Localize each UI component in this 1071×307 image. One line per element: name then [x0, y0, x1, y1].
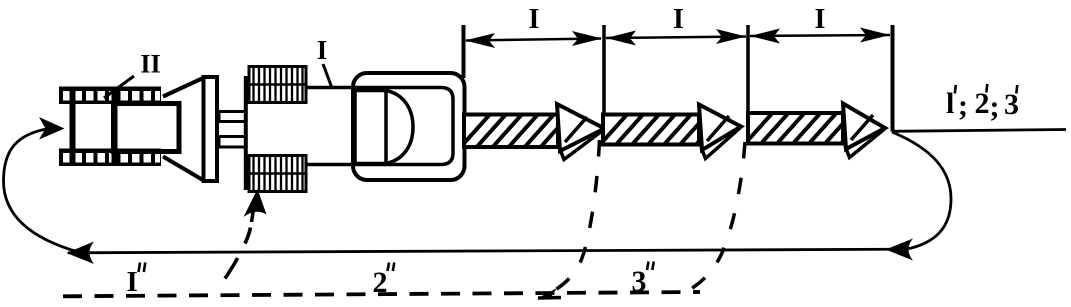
implement hitch trapezoid top edge — [163, 79, 202, 97]
dashed turn curve 1 — [550, 140, 600, 293]
tractor front edge — [244, 76, 248, 190]
left turn curve — [4, 129, 81, 253]
headland dashed line — [63, 292, 700, 296]
svg-text:;: ; — [958, 89, 968, 122]
svg-text:2: 2 — [373, 266, 388, 299]
svg-text:3: 3 — [632, 265, 647, 298]
left curve arrowhead — [39, 117, 65, 140]
implement left upright — [70, 87, 76, 166]
svg-text:I: I — [317, 35, 328, 65]
tractor bottom track — [249, 156, 306, 192]
svg-text:I: I — [815, 4, 826, 35]
pass arrow 1 head — [557, 104, 605, 160]
tractor seat D-shape — [355, 91, 413, 164]
dimension line segment 2 — [606, 29, 746, 46]
svg-text:II: II — [140, 50, 160, 79]
hitch plate A — [204, 77, 218, 181]
svg-text:I: I — [673, 4, 684, 35]
dimension line segment 1 — [465, 31, 602, 48]
bottom line left arrowhead — [67, 242, 95, 265]
return line bottom — [68, 249, 903, 253]
dimension tick 2 — [602, 25, 606, 125]
tractor body — [246, 88, 454, 165]
implement II top toothed bar — [59, 87, 161, 105]
svg-text:;: ; — [990, 90, 1000, 123]
svg-text:I: I — [127, 266, 138, 298]
svg-text:l: l — [946, 87, 954, 120]
leader line for I — [323, 64, 332, 88]
result line right — [892, 130, 1066, 132]
feed arrow tail — [252, 206, 255, 222]
bottom line right arrowhead — [886, 239, 914, 261]
pass arrow 3 shaft — [742, 109, 872, 147]
tractor cab outline — [353, 73, 465, 180]
pass arrow 3 head — [843, 104, 885, 158]
right turn curve — [892, 132, 951, 249]
implement hitch trapezoid bottom edge — [163, 157, 202, 180]
dimension tick 4 — [891, 25, 895, 132]
drawbar bottom link — [219, 137, 246, 148]
dimension tick 1 — [462, 25, 466, 78]
implement mid upright — [112, 87, 118, 166]
pass arrow 1 shaft — [458, 112, 588, 150]
implement frame rectangle — [114, 104, 180, 152]
drawbar top link — [219, 112, 246, 122]
svg-text:I: I — [529, 4, 540, 35]
pass arrow 2 shaft — [597, 110, 727, 148]
label 1';2';3' — [946, 87, 1019, 123]
tractor top track — [249, 67, 306, 103]
dashed curve 1 arrow — [538, 296, 561, 300]
dashed turn-in curve to tractor — [225, 258, 238, 279]
feed arrow at tractor — [244, 189, 267, 217]
dimension line segment 3 — [750, 28, 890, 44]
pass arrow 2 head — [699, 105, 741, 159]
dimension tick 3 — [746, 25, 750, 120]
implement II bottom toothed bar — [59, 149, 161, 167]
dashed turn curve 2 — [690, 142, 745, 290]
leader line for II — [104, 76, 134, 98]
